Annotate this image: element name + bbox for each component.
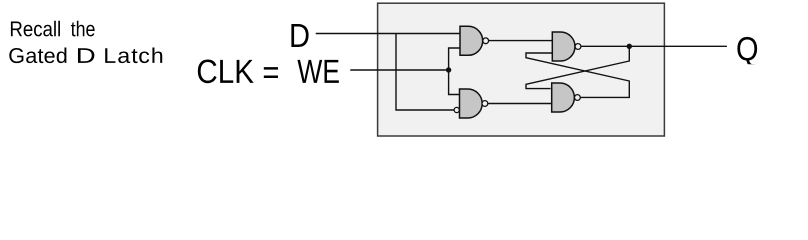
- caption word the: [71, 21, 95, 37]
- caption word D: [78, 48, 94, 63]
- wire cross feedback U4 out to U3: [526, 53, 629, 97]
- wire cross feedback Q to U4: [526, 46, 629, 88]
- wire gate U2 output to U4: [488, 103, 552, 105]
- nand gate U1 top-left: [460, 26, 489, 55]
- wire CLK to upper gate: [449, 48, 460, 70]
- label equals: [264, 67, 278, 78]
- wire gate U1 output to U3: [489, 40, 553, 42]
- junction CLK node: [446, 67, 451, 72]
- wire D branch vertical: [396, 34, 454, 111]
- latch enclosure box: [378, 3, 665, 136]
- wire D input: [316, 33, 460, 35]
- nand gate U2 bottom-left (inverted D input): [454, 89, 488, 118]
- wire CLK to lower gate: [449, 70, 460, 95]
- wire Q output: [581, 45, 727, 47]
- label WE: [297, 60, 338, 83]
- label D: [291, 24, 308, 47]
- label CLK: [198, 60, 254, 84]
- nand gate U4 bottom-right: [552, 83, 581, 112]
- junction Q node: [627, 44, 632, 49]
- wire CLK input: [350, 69, 448, 71]
- caption word Gated: [9, 47, 66, 63]
- caption word Latch: [105, 47, 162, 63]
- label Q: [737, 37, 757, 67]
- caption word Recall: [11, 21, 60, 37]
- nand gate U3 top-right: [552, 32, 581, 61]
